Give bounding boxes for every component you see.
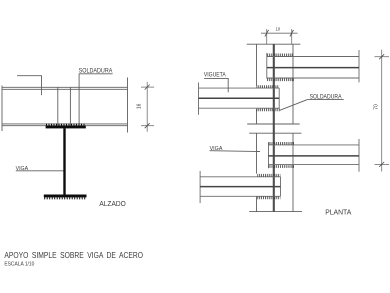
svg-text:70: 70 (374, 104, 380, 110)
svg-text:VIGA: VIGA (210, 146, 223, 152)
svg-text:SOLDADURA: SOLDADURA (310, 94, 342, 101)
svg-text:VIGUETA: VIGUETA (204, 71, 227, 78)
svg-text:ESCALA 1/10: ESCALA 1/10 (4, 262, 34, 268)
svg-text:SOLDADURA: SOLDADURA (79, 69, 113, 75)
svg-text:10: 10 (276, 27, 281, 32)
svg-text:VIGA: VIGA (16, 166, 29, 172)
svg-text:16: 16 (137, 103, 143, 109)
svg-text:ALZADO: ALZADO (99, 199, 126, 208)
svg-text:PLANTA: PLANTA (325, 207, 351, 216)
svg-text:APOYO SIMPLE SOBRE VIGA DE ACE: APOYO SIMPLE SOBRE VIGA DE ACERO (4, 251, 143, 260)
